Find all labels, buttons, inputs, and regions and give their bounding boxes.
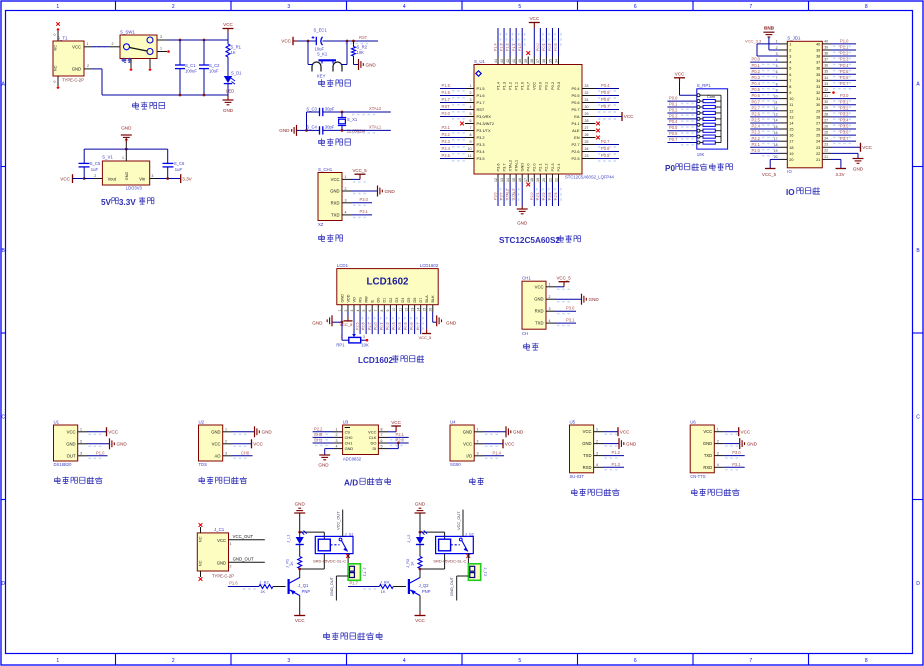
svg-text:1: 1 <box>470 84 472 88</box>
chip pin 24 P2.6 <box>582 151 596 153</box>
svg-text:VDD: VDD <box>346 294 350 302</box>
svg-text:1: 1 <box>160 47 162 51</box>
IO port pin 6 left <box>779 73 787 75</box>
chip pin 35 P0.2 top <box>551 57 553 65</box>
svg-text:P1.4: P1.4 <box>494 43 498 51</box>
svg-text:26: 26 <box>816 128 820 132</box>
wire IO left row 11 net P0.7 <box>750 104 779 106</box>
svg-text:15: 15 <box>512 178 516 182</box>
U6 pin 3 <box>714 455 723 457</box>
wire relay contact to terminal J_T2 <box>467 554 469 564</box>
svg-text:SRD-05VDC-SL-C: SRD-05VDC-SL-C <box>313 559 346 564</box>
svg-text:VCC: VCC <box>529 16 539 21</box>
svg-text:P3.6: P3.6 <box>840 130 849 135</box>
svg-text:32: 32 <box>585 91 589 95</box>
svg-text:D3: D3 <box>395 298 399 303</box>
svg-text:VCC: VCC <box>108 430 118 435</box>
svg-text:1: 1 <box>122 156 124 160</box>
net label P3.1 download <box>352 214 372 216</box>
LED J_L2 <box>419 532 421 537</box>
U2 pin 3 AO <box>223 455 232 457</box>
svg-text:6: 6 <box>470 119 472 123</box>
svg-text:P2.4: P2.4 <box>556 163 561 172</box>
svg-text:S_EC1: S_EC1 <box>314 28 328 33</box>
chip pin 16 GND bottom <box>521 174 523 182</box>
svg-text:IO: IO <box>786 188 795 197</box>
connector S_T1 TYPE-C-2P <box>53 41 84 76</box>
svg-text:S_V1: S_V1 <box>102 154 113 159</box>
svg-text:25: 25 <box>824 131 828 135</box>
wire IO right row 11 net P3.1 <box>831 104 857 106</box>
IO port pin 1 left <box>779 43 787 45</box>
svg-text:8: 8 <box>380 310 384 312</box>
svg-text:29: 29 <box>824 106 828 110</box>
svg-text:43: 43 <box>500 59 504 63</box>
IO port pin 36 right <box>822 67 830 69</box>
svg-text:I/O: I/O <box>466 453 472 458</box>
svg-text:TYPE-C-2P: TYPE-C-2P <box>212 573 234 578</box>
svg-text:U3: U3 <box>343 420 349 425</box>
pull-up resistor element 8 of RP1 <box>697 141 700 144</box>
svg-text:S_D1: S_D1 <box>231 71 242 76</box>
net label P2.2 to U3 CS <box>313 431 333 433</box>
svg-text:4: 4 <box>549 319 551 323</box>
svg-text:P2.5: P2.5 <box>601 153 610 158</box>
svg-text:P0.4: P0.4 <box>398 322 402 330</box>
svg-text:29: 29 <box>816 109 820 113</box>
svg-text:11: 11 <box>468 154 472 158</box>
svg-text:P4.0: P4.0 <box>526 163 531 172</box>
svg-text:J_R2: J_R2 <box>259 580 269 585</box>
svg-text:VCC: VCC <box>583 429 592 434</box>
svg-text:GND: GND <box>217 560 226 565</box>
power port VCC U6 <box>724 431 739 433</box>
IO port pin 39 right <box>822 49 830 51</box>
chip pin 25 P2.7 <box>582 144 596 146</box>
capacitor S_C2 10uF <box>203 40 205 65</box>
svg-text:GND: GND <box>117 442 128 447</box>
chip pin 17 P4.0 bottom <box>527 174 529 182</box>
svg-text:P3.5: P3.5 <box>477 156 485 161</box>
power port VCC above chip <box>533 23 535 29</box>
svg-text:3: 3 <box>160 35 162 39</box>
svg-text:24: 24 <box>824 137 828 141</box>
svg-text:3: 3 <box>225 452 227 456</box>
wire emitter J_Q2 to VCC <box>419 596 421 612</box>
svg-text:4: 4 <box>403 658 406 664</box>
svg-text:3.3V: 3.3V <box>182 176 192 181</box>
chip pin 22 P2.4 bottom <box>558 174 560 182</box>
svg-text:17: 17 <box>524 178 528 182</box>
svg-text:LDO3V3: LDO3V3 <box>126 186 143 191</box>
svg-text:P2.4: P2.4 <box>554 192 558 200</box>
svg-text:2: 2 <box>789 48 791 52</box>
svg-text:14: 14 <box>789 121 793 125</box>
ground power port of power circuit <box>223 99 234 101</box>
chip pin 41 P1.1 top <box>515 57 517 65</box>
svg-text:NC: NC <box>54 65 58 71</box>
IO port pin 25 right <box>822 134 830 136</box>
IO port pin 29 right <box>822 110 830 112</box>
svg-text:4: 4 <box>789 61 791 65</box>
MCU S_U1 STC12C5A60S2_LQFP44 <box>474 65 582 175</box>
IO port pin 31 right <box>822 98 830 100</box>
svg-text:16: 16 <box>429 308 433 312</box>
svg-text:S_JD1: S_JD1 <box>787 36 801 41</box>
svg-text:P3.1: P3.1 <box>442 125 451 130</box>
svg-text:J_R4: J_R4 <box>380 580 390 585</box>
svg-text:P3.6: P3.6 <box>495 163 500 171</box>
svg-text:34: 34 <box>824 76 828 80</box>
wire IO left row 13 net P2.6 <box>750 116 779 118</box>
svg-text:NC: NC <box>198 560 202 566</box>
IO port pin 19 left <box>779 152 787 154</box>
IO port pin 33 right <box>822 85 830 87</box>
svg-text:P1.3: P1.3 <box>840 57 849 62</box>
svg-text:1: 1 <box>596 428 598 432</box>
LCD pin 15 BLA <box>426 305 428 312</box>
caption reset circuit <box>319 79 325 86</box>
serial port pin 2 <box>546 298 556 300</box>
ground power port download <box>377 186 379 197</box>
svg-text:12: 12 <box>404 308 408 312</box>
pull-up resistor element 6 of RP1 <box>697 129 700 132</box>
svg-text:VCC: VCC <box>415 618 425 623</box>
capacitor S_C3 30pF <box>307 111 320 113</box>
svg-text:8: 8 <box>470 133 472 137</box>
wire P0.6 to RP1 <box>667 136 696 138</box>
capacitor S_C6 1uF <box>163 162 174 164</box>
net label P3.0 download <box>352 202 372 204</box>
IO port pin 34 right <box>822 79 830 81</box>
junction at C2 top <box>203 39 206 42</box>
svg-text:22: 22 <box>554 178 558 182</box>
svg-text:IO: IO <box>787 169 792 174</box>
chip pin 44 P1.4 top <box>497 57 499 65</box>
svg-text:GND: GND <box>223 108 234 113</box>
chip pin 43 P1.3 top <box>503 57 505 65</box>
svg-text:4: 4 <box>356 310 360 312</box>
svg-text:2: 2 <box>230 565 232 569</box>
svg-text:GND: GND <box>513 430 524 435</box>
junction C1 bottom <box>179 94 182 97</box>
wire relay J_S1 VCC_OUT top <box>342 510 344 537</box>
switch bottom pins no-connect <box>130 59 132 69</box>
regulator S_V1 LDO3V3 <box>102 161 149 185</box>
wire IO right row 3 net P1.2 <box>831 55 857 57</box>
capacitor S_C5 1uF <box>79 162 90 164</box>
svg-text:P3.5: P3.5 <box>840 124 849 129</box>
download port pin 1 <box>342 178 352 180</box>
ground power port U6 <box>724 443 740 445</box>
wire relay contact to terminal J_T1 <box>347 554 349 564</box>
svg-text:GND: GND <box>262 430 273 435</box>
svg-text:J_Q2: J_Q2 <box>419 583 430 588</box>
svg-text:VCC: VCC <box>505 442 515 447</box>
svg-text:GND: GND <box>125 172 129 181</box>
svg-text:D0: D0 <box>377 298 381 303</box>
chip pin 12 P3.6 bottom <box>497 174 499 182</box>
caption U5 <box>571 489 577 496</box>
LCD pin 9 D2 <box>389 305 391 312</box>
svg-text:P0.3: P0.3 <box>392 322 396 330</box>
wire power circuit bottom rail <box>84 68 92 70</box>
wire IO pin 23 to VCC <box>831 146 861 148</box>
resistor network S_RP1 10K <box>697 89 728 149</box>
svg-text:10K: 10K <box>361 342 369 347</box>
wire IO right row 14 net P3.4 <box>831 122 857 124</box>
connector J_C1 TYPE-C-2P output <box>197 533 228 571</box>
svg-text:P1.6: P1.6 <box>442 90 451 95</box>
pin 0 bottom no-connect of S_T1 <box>57 76 59 86</box>
svg-text:2: 2 <box>477 440 479 444</box>
U2 pin 2 VCC <box>223 443 232 445</box>
download port pin 4 <box>342 214 352 216</box>
svg-text:XZ: XZ <box>318 222 324 227</box>
wire regulator top rail <box>84 148 168 150</box>
svg-text:P2.1: P2.1 <box>752 142 761 147</box>
caption U2 <box>199 477 205 484</box>
module U5 SU-03T <box>570 425 594 473</box>
svg-text:D4: D4 <box>401 298 405 303</box>
wire IO pin 22 to GND <box>831 152 859 154</box>
svg-text:P2.0: P2.0 <box>396 438 405 443</box>
svg-text:3.3V: 3.3V <box>835 172 844 177</box>
svg-text:P1.4: P1.4 <box>493 450 502 455</box>
svg-text:P3.1: P3.1 <box>840 99 849 104</box>
svg-text:P0.6: P0.6 <box>752 93 761 98</box>
wire IO left row 16 net P2.3 <box>750 134 779 136</box>
svg-text:31: 31 <box>816 97 820 101</box>
svg-text:VCC: VCC <box>624 114 634 119</box>
svg-text:5: 5 <box>518 658 521 664</box>
wire IO right row 2 net P1.1 <box>831 49 857 51</box>
svg-text:S_C3: S_C3 <box>306 106 317 111</box>
svg-text:S_R1: S_R1 <box>231 45 242 50</box>
svg-text:P0.0: P0.0 <box>536 43 540 51</box>
wire P0.0 to RP1 <box>667 100 696 102</box>
net label P3.1 serial <box>556 322 576 324</box>
svg-text:XTAL2: XTAL2 <box>507 160 512 172</box>
IO port pin 21 right <box>822 158 830 160</box>
wire IO left row 4 net P0.0 <box>750 61 779 63</box>
svg-text:P1.6: P1.6 <box>840 75 849 80</box>
module U1 DS18B20 <box>54 425 78 461</box>
svg-text:J_S2: J_S2 <box>465 531 474 536</box>
svg-text:CH1: CH1 <box>314 438 323 443</box>
svg-text:VCC: VCC <box>675 71 685 76</box>
svg-text:C: C <box>916 414 920 420</box>
svg-text:4: 4 <box>776 58 778 62</box>
svg-text:P1.1: P1.1 <box>840 45 849 50</box>
resistor S_R2 10K <box>353 41 355 47</box>
resistor J_R3 1K <box>419 545 421 557</box>
U4 pin 2 VCC <box>474 443 483 445</box>
svg-text:DI: DI <box>372 446 376 451</box>
svg-text:VCC: VCC <box>703 429 712 434</box>
U3 right pin 8 <box>378 431 388 433</box>
wire P0.4 to RP1 <box>667 124 696 126</box>
U4 pin 1 GND <box>474 431 483 433</box>
wire LCD pin16 to GND <box>432 312 434 322</box>
chip pin 8 P3.2 <box>465 137 474 139</box>
download port pin 2 <box>342 190 352 192</box>
svg-text:3: 3 <box>80 452 82 456</box>
svg-text:30: 30 <box>816 103 820 107</box>
svg-text:14: 14 <box>506 178 510 182</box>
LCD pin 12 D5 <box>408 305 410 312</box>
svg-text:P2.2: P2.2 <box>314 426 323 431</box>
svg-text:P0.7: P0.7 <box>416 322 420 330</box>
svg-text:9: 9 <box>386 310 390 312</box>
svg-text:30pF: 30pF <box>325 125 335 130</box>
svg-text:P1.1: P1.1 <box>513 82 518 90</box>
caption power circuit <box>133 102 139 109</box>
wire EC1 to RST <box>323 40 379 42</box>
U3 left pin 2 <box>333 436 343 438</box>
svg-text:37: 37 <box>816 61 820 65</box>
power port VCC below J_Q1 <box>299 611 301 616</box>
connector S_CH1 XZ download port <box>318 173 342 221</box>
svg-text:4: 4 <box>345 211 347 215</box>
svg-text:P3.1: P3.1 <box>732 462 741 467</box>
ground power port relay J_S2 <box>415 512 426 514</box>
chip pin 27 ALE <box>582 130 596 132</box>
svg-text:5: 5 <box>362 310 366 312</box>
IO port pin 7 left <box>779 79 787 81</box>
svg-text:GND_OUT: GND_OUT <box>329 576 334 596</box>
wire IO right row 5 net P1.4 <box>831 67 857 69</box>
svg-text:P2.5: P2.5 <box>571 156 579 161</box>
IO port pin 35 right <box>822 73 830 75</box>
J_C1 top no-connect pin <box>200 527 202 533</box>
wire crystal left vertical <box>306 112 308 130</box>
svg-text:P0.6: P0.6 <box>571 100 579 105</box>
svg-text:1: 1 <box>87 42 89 46</box>
svg-text:P0.7: P0.7 <box>571 107 579 112</box>
svg-text:P0.0: P0.0 <box>538 81 543 90</box>
svg-text:3: 3 <box>287 4 290 10</box>
svg-text:GND: GND <box>211 429 220 434</box>
svg-text:GND_OUT: GND_OUT <box>449 576 454 596</box>
power port VCC_5 download <box>352 178 360 180</box>
net label VCC_3.3 and wire rows1-3 <box>757 43 779 45</box>
IO port pin 24 right <box>822 140 830 142</box>
svg-text:7: 7 <box>374 310 378 312</box>
U6 pin 1 <box>714 431 723 433</box>
pull-up resistor element 1 of RP1 <box>697 100 700 103</box>
IO port pin 26 right <box>822 128 830 130</box>
wire IO left row 17 net P2.2 <box>750 140 779 142</box>
svg-text:P0.6: P0.6 <box>669 131 678 136</box>
chip pin 11 P3.5 <box>465 158 474 160</box>
svg-text:5: 5 <box>776 64 778 68</box>
module U2 TDS <box>199 425 223 461</box>
wire Vin pin to 3.3V <box>150 178 158 180</box>
svg-text:10: 10 <box>468 147 472 151</box>
svg-text:P3.2: P3.2 <box>442 132 451 137</box>
power port VCC top of power circuit <box>223 28 234 30</box>
svg-text:GND: GND <box>330 189 339 194</box>
svg-text:RXD: RXD <box>535 309 544 314</box>
IO port pin 14 left <box>779 122 787 124</box>
chip pin 1 P1.5 <box>465 88 474 90</box>
svg-text:VCC_5: VCC_5 <box>353 168 368 173</box>
junction reset right branch <box>346 40 349 43</box>
screw terminal J_T1 <box>348 564 360 581</box>
chip pin 28 P4.1 <box>582 123 596 125</box>
chip pin 3 P1.7 <box>465 102 474 104</box>
power port VCC U5 <box>603 431 618 433</box>
svg-text:PNP: PNP <box>302 589 311 594</box>
svg-text:P2.2: P2.2 <box>752 136 761 141</box>
svg-text:S_C4: S_C4 <box>306 125 317 130</box>
transistor J_Q1 PNP <box>288 579 290 594</box>
svg-text:GND: GND <box>385 189 396 194</box>
svg-text:P0.4: P0.4 <box>669 119 678 124</box>
svg-text:RS: RS <box>358 297 362 303</box>
svg-text:P0.6: P0.6 <box>601 97 610 102</box>
svg-text:7: 7 <box>381 433 383 437</box>
svg-text:VCC: VCC <box>223 22 233 27</box>
svg-text:P2.3: P2.3 <box>548 192 552 200</box>
svg-text:Vout: Vout <box>108 176 117 181</box>
svg-text:P0.6: P0.6 <box>410 322 414 330</box>
svg-text:P3.7: P3.7 <box>840 136 849 141</box>
module U6 CN-TTS <box>690 425 714 473</box>
svg-text:1: 1 <box>477 428 479 432</box>
svg-text:8: 8 <box>789 85 791 89</box>
power port VCC_5 serial <box>556 286 564 288</box>
wire P0.5 to RP1 <box>667 130 696 132</box>
wire download GND <box>352 190 377 192</box>
svg-text:6: 6 <box>634 658 637 664</box>
svg-text:P1.4: P1.4 <box>495 81 500 90</box>
svg-text:S_C2: S_C2 <box>209 63 220 68</box>
svg-text:11: 11 <box>789 103 793 107</box>
IO port pin 40 right <box>822 43 830 45</box>
svg-text:2: 2 <box>345 187 347 191</box>
svg-text:1: 1 <box>336 428 338 432</box>
svg-text:GND: GND <box>312 321 323 326</box>
svg-text:6: 6 <box>368 310 372 312</box>
svg-text:GND: GND <box>121 126 132 131</box>
potentiometer RP1 10K <box>352 334 356 337</box>
screw terminal J_T2 <box>468 564 480 581</box>
svg-text:P2.6: P2.6 <box>601 146 610 151</box>
svg-text:GND: GND <box>626 441 637 446</box>
wire P0.1 to RP1 <box>667 106 696 108</box>
wire U3 GND pin <box>325 448 333 450</box>
svg-text:P3.1/TX: P3.1/TX <box>477 128 491 133</box>
svg-text:21: 21 <box>548 178 552 182</box>
svg-text:P1.7: P1.7 <box>840 81 849 86</box>
svg-text:D2: D2 <box>389 298 393 303</box>
svg-text:XTAL2: XTAL2 <box>506 189 510 200</box>
svg-text:39: 39 <box>524 59 528 63</box>
svg-text:P0.1: P0.1 <box>752 63 761 68</box>
svg-text:12: 12 <box>789 109 793 113</box>
U1 pin 3 OUT <box>78 455 87 457</box>
svg-text:ADC0832: ADC0832 <box>343 457 362 462</box>
svg-text:S_K1: S_K1 <box>317 52 328 57</box>
svg-text:2: 2 <box>94 174 96 178</box>
svg-text:VCC: VCC <box>60 176 70 181</box>
svg-text:CH0: CH0 <box>314 432 323 437</box>
svg-text:P1.3: P1.3 <box>612 462 621 467</box>
wire P0.2 to RP1 <box>667 112 696 114</box>
svg-text:2: 2 <box>717 439 719 443</box>
